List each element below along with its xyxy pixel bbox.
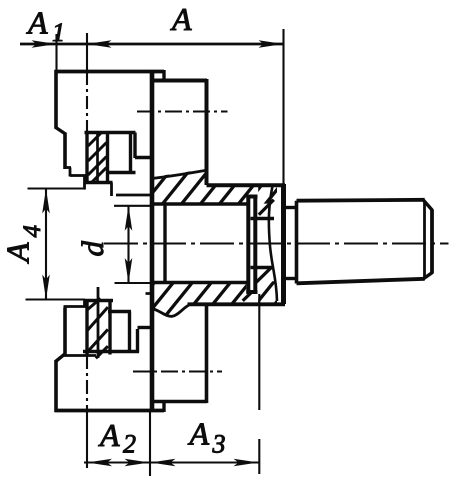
- step horizontal to hub: [135, 156, 152, 159]
- block hatch 2: [88, 143, 107, 162]
- ring bottom cap: [246, 290, 257, 294]
- svg-text:4: 4: [19, 225, 46, 238]
- extension line A2 left lower: [86, 355, 88, 415]
- step vertical at x135: [133, 133, 136, 159]
- extension/centerline x=87 upper: [86, 33, 88, 72]
- chamfer vertical: [423, 201, 426, 278]
- rear step vertical: [110, 183, 113, 197]
- mouth hatch extra bottom 1: [254, 267, 272, 284]
- block hatch 1: [88, 133, 101, 146]
- bottom block top edge: [85, 299, 114, 302]
- A4 arrowhead up: [42, 189, 50, 214]
- hub bump right vertical bottom: [162, 401, 165, 413]
- bore bottom edge: [153, 281, 247, 285]
- hub bottom edge: [153, 400, 207, 404]
- counterbore bottom edge: [108, 171, 136, 174]
- extension line A1 left: [55, 34, 57, 72]
- bottom block inner vertical: [108, 299, 111, 355]
- bore end face: [163, 203, 166, 285]
- bolt-hole block top edge: [85, 131, 136, 134]
- bolt circle dash-dot upper: [137, 110, 228, 112]
- arrow A1 left outside: [32, 40, 57, 48]
- bottom counterbore top edge: [108, 310, 131, 313]
- flange bottom edge: [55, 409, 165, 413]
- ring left vertical: [246, 196, 250, 294]
- cylinder2 top edge: [207, 183, 286, 187]
- counterbore right vertical: [129, 133, 132, 174]
- step vertical 2: [69, 168, 72, 177]
- section hatching band A right of ring: [240, 166, 296, 212]
- cylinder2 bottom edge: [188, 302, 286, 306]
- svg-text:A: A: [0, 242, 36, 264]
- hub transition curve top: [152, 170, 207, 178]
- neck top edge: [284, 206, 298, 209]
- vertical to A4 corner: [83, 176, 86, 190]
- block inner vertical: [106, 131, 109, 184]
- A4 dimension arrow line: [45, 189, 47, 300]
- bottom step vertical: [136, 329, 139, 353]
- A4 extension top: [28, 187, 86, 189]
- d extension top: [114, 205, 152, 207]
- d arrowhead up: [125, 206, 133, 231]
- bottom vertical to A4 corner: [83, 300, 86, 308]
- svg-text:1: 1: [52, 18, 65, 47]
- bottom block bottom edge: [83, 350, 139, 353]
- hub right edge upper: [205, 79, 209, 185]
- neck bottom edge: [284, 277, 298, 280]
- flange bottom front face: [54, 361, 58, 412]
- dimension line A2 A3: [84, 462, 260, 464]
- shaft left face: [295, 201, 299, 284]
- hub top edge: [153, 79, 207, 83]
- chamfer diagonal top: [424, 200, 433, 210]
- ring top cap: [246, 195, 257, 199]
- extension line A right: [282, 29, 284, 185]
- A4 face corner edge top: [83, 187, 86, 190]
- bottom block lower edge left: [64, 354, 97, 357]
- A4 extension bottom: [26, 298, 86, 300]
- section hatching band B: [124, 278, 272, 320]
- section hatching band A: [118, 166, 269, 212]
- bore top edge: [153, 202, 247, 206]
- bottom block hatch 1: [87, 298, 101, 310]
- bottom step horizontal: [138, 326, 152, 329]
- break wavy line: [269, 186, 277, 301]
- chamfer bottom-left: [55, 354, 65, 362]
- section hatching band B right of ring: [243, 278, 296, 320]
- bottom block hatch 3: [87, 329, 108, 353]
- step horizontal: [64, 166, 72, 169]
- d extension bottom: [115, 282, 153, 284]
- chamfer diagonal bottom: [424, 273, 433, 279]
- dimension line A/A1 horizontal: [20, 43, 284, 46]
- shaft top edge: [297, 198, 425, 203]
- svg-text:A: A: [170, 1, 192, 37]
- svg-text:A: A: [98, 417, 120, 453]
- rear step horizontal: [116, 194, 152, 197]
- A2 arrowhead right: [125, 459, 150, 467]
- shaft bottom edge: [297, 279, 425, 284]
- extension line A2 right / A3 left: [149, 412, 151, 476]
- mouth hatch extra bottom 2: [243, 290, 254, 301]
- A4 arrowhead down: [42, 275, 50, 300]
- bottom left step vertical: [63, 308, 67, 356]
- svg-text:A: A: [26, 5, 48, 41]
- bottom step horizontal: [64, 305, 88, 308]
- d arrowhead down: [125, 258, 133, 283]
- hub bump right vertical top: [162, 70, 165, 82]
- bottom counterbore right vertical: [128, 312, 131, 353]
- A3 arrowhead right: [234, 459, 259, 467]
- hub right edge lower: [205, 305, 209, 404]
- ring right vertical: [253, 197, 257, 294]
- extension line A3 right: [258, 294, 260, 410]
- bottom block hatch 4: [96, 346, 108, 358]
- main centerline dash-dot: [104, 242, 449, 244]
- arrow A1 right / A left: [87, 40, 112, 48]
- part right face: [281, 184, 286, 304]
- bottom block mid vertical: [97, 287, 100, 358]
- ring slot white fill: [250, 198, 254, 291]
- bottom block hatch 2: [87, 307, 108, 331]
- flange top edge: [55, 70, 165, 74]
- A3 arrowhead left: [151, 459, 176, 467]
- bolt circle dash-dot lower: [133, 370, 222, 372]
- block mid vertical: [96, 132, 99, 183]
- shaft right face: [430, 210, 434, 274]
- flange rear face vertical: [150, 70, 155, 412]
- svg-text:2: 2: [123, 430, 136, 459]
- thread bar top: [251, 217, 275, 221]
- flange front face: [54, 70, 58, 128]
- bottom block left edge: [85, 301, 88, 355]
- d dimension arrow line: [127, 206, 129, 283]
- block hatch 3: [88, 157, 107, 176]
- bottom rear nub: [146, 292, 153, 295]
- block hatch 4: [92, 168, 107, 183]
- mouth hatch extra top: [259, 200, 274, 215]
- A2 arrowhead left: [87, 459, 112, 467]
- step horizontal 2: [70, 174, 86, 177]
- arrow A right: [259, 40, 284, 48]
- flange left step vertical: [63, 133, 67, 170]
- thread bar bottom: [251, 266, 275, 270]
- hub transition curve bottom: [152, 305, 189, 316]
- svg-text:A: A: [188, 416, 210, 452]
- block left edge thick: [85, 131, 88, 184]
- chamfer top-left: [55, 127, 66, 134]
- svg-text:3: 3: [212, 430, 226, 459]
- block bottom edge: [85, 181, 113, 184]
